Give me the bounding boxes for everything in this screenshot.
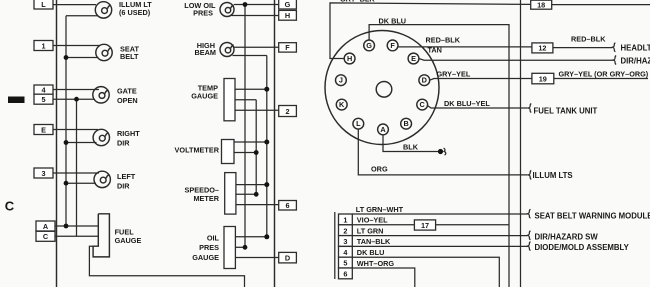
svg-text:A: A bbox=[43, 222, 49, 231]
svg-text:DK BLU: DK BLU bbox=[379, 16, 407, 25]
svg-text:LT GRN: LT GRN bbox=[357, 226, 384, 235]
svg-text:5: 5 bbox=[41, 95, 45, 104]
svg-text:BLK: BLK bbox=[403, 143, 419, 152]
svg-text:12: 12 bbox=[538, 44, 546, 53]
svg-text:B: B bbox=[403, 119, 408, 128]
svg-text:E: E bbox=[41, 125, 46, 134]
svg-text:(6 USED): (6 USED) bbox=[119, 8, 151, 17]
svg-text:6: 6 bbox=[285, 201, 289, 210]
svg-text:DIR: DIR bbox=[117, 182, 130, 191]
svg-text:F: F bbox=[285, 43, 290, 52]
svg-text:RIGHT: RIGHT bbox=[117, 129, 140, 138]
svg-text:VIO–YEL: VIO–YEL bbox=[357, 216, 388, 225]
svg-text:PRES: PRES bbox=[193, 9, 213, 18]
svg-text:TAN–BLK: TAN–BLK bbox=[357, 237, 391, 246]
svg-text:D: D bbox=[422, 76, 427, 85]
svg-text:WHT–ORG: WHT–ORG bbox=[357, 259, 395, 268]
svg-text:DK BLU–YEL: DK BLU–YEL bbox=[444, 99, 490, 108]
svg-text:3: 3 bbox=[343, 237, 347, 246]
svg-text:G: G bbox=[366, 41, 372, 50]
svg-text:H: H bbox=[285, 11, 290, 20]
svg-text:LEFT: LEFT bbox=[117, 172, 136, 181]
svg-text:DK BLU: DK BLU bbox=[357, 248, 385, 257]
svg-text:DIR/HAZARD SW: DIR/HAZARD SW bbox=[621, 57, 650, 66]
svg-text:19: 19 bbox=[539, 74, 547, 83]
svg-text:ILLUM LTS: ILLUM LTS bbox=[533, 171, 573, 180]
svg-text:L: L bbox=[356, 119, 361, 128]
svg-text:17: 17 bbox=[421, 221, 429, 230]
svg-text:BELT: BELT bbox=[120, 52, 139, 61]
svg-text:OIL: OIL bbox=[207, 233, 220, 242]
svg-text:PRES: PRES bbox=[199, 243, 219, 252]
svg-text:DIR: DIR bbox=[117, 139, 130, 148]
svg-text:1: 1 bbox=[343, 216, 347, 225]
svg-text:SEAT BELT WARNING MODULE: SEAT BELT WARNING MODULE bbox=[535, 211, 650, 220]
svg-text:3: 3 bbox=[41, 169, 45, 178]
svg-text:1: 1 bbox=[41, 41, 45, 50]
svg-text:2: 2 bbox=[285, 107, 289, 116]
svg-text:G: G bbox=[285, 0, 291, 9]
svg-text:C: C bbox=[420, 100, 426, 109]
svg-text:2: 2 bbox=[343, 226, 347, 235]
svg-text:18: 18 bbox=[537, 0, 545, 9]
svg-text:E: E bbox=[411, 54, 416, 63]
svg-text:HEADLTS SW: HEADLTS SW bbox=[621, 43, 650, 52]
svg-text:C: C bbox=[43, 232, 49, 241]
svg-text:TAN: TAN bbox=[428, 45, 442, 54]
svg-text:L: L bbox=[41, 0, 46, 9]
svg-text:GRY–YEL (OR GRY–ORG): GRY–YEL (OR GRY–ORG) bbox=[559, 70, 649, 79]
svg-text:METER: METER bbox=[193, 194, 219, 203]
svg-text:OPEN: OPEN bbox=[117, 96, 138, 105]
svg-text:VOLTMETER: VOLTMETER bbox=[175, 145, 220, 154]
svg-text:GATE: GATE bbox=[117, 87, 137, 96]
svg-text:A: A bbox=[380, 125, 386, 134]
svg-text:DIODE/MOLD ASSEMBLY: DIODE/MOLD ASSEMBLY bbox=[535, 243, 630, 252]
svg-text:GAUGE: GAUGE bbox=[192, 253, 219, 262]
svg-text:C: C bbox=[5, 198, 15, 213]
svg-text:GRY–BLK: GRY–BLK bbox=[340, 0, 375, 4]
svg-text:GAUGE: GAUGE bbox=[191, 92, 218, 101]
svg-text:GRY–YEL: GRY–YEL bbox=[437, 70, 471, 79]
svg-text:DIR/HAZARD SW: DIR/HAZARD SW bbox=[535, 232, 599, 241]
svg-text:D: D bbox=[285, 254, 290, 263]
svg-text:J: J bbox=[339, 76, 343, 85]
svg-text:RED–BLK: RED–BLK bbox=[426, 36, 461, 45]
svg-text:BEAM: BEAM bbox=[195, 48, 217, 57]
svg-text:5: 5 bbox=[343, 259, 347, 268]
svg-text:K: K bbox=[339, 100, 345, 109]
svg-text:LT GRN–WHT: LT GRN–WHT bbox=[356, 205, 404, 214]
svg-text:FUEL TANK UNIT: FUEL TANK UNIT bbox=[534, 106, 598, 115]
svg-text:RED–BLK: RED–BLK bbox=[571, 35, 606, 44]
svg-text:H: H bbox=[347, 54, 352, 63]
svg-text:GAUGE: GAUGE bbox=[115, 236, 142, 245]
svg-text:F: F bbox=[390, 41, 395, 50]
svg-text:6: 6 bbox=[343, 270, 347, 279]
svg-text:ORG: ORG bbox=[371, 164, 388, 173]
